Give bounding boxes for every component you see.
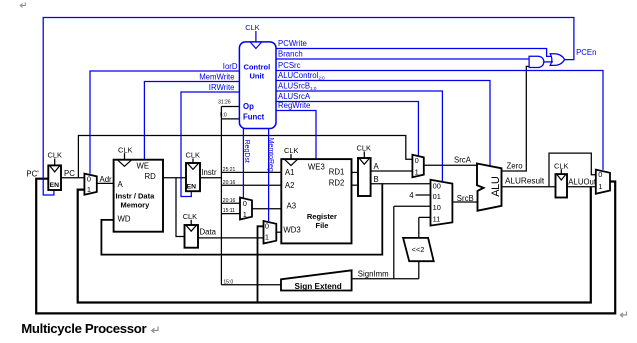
wire ALUControl to ALU [276, 81, 490, 167]
wire memory RD branch to Data register [176, 178, 185, 237]
wire Instr 25:21 tap to A1 [221, 171, 281, 173]
control unit [239, 42, 276, 129]
svg-text:B: B [374, 175, 379, 184]
wire RD1 to A register [352, 171, 359, 173]
svg-text:RegDst: RegDst [243, 140, 250, 163]
wire Instr register output to instruction bus [200, 177, 221, 179]
svg-text:CLK: CLK [357, 144, 371, 153]
svg-text:Op: Op [243, 102, 254, 111]
svg-text:CLK: CLK [118, 146, 132, 155]
svg-text:1: 1 [265, 232, 269, 241]
wire B register to memory WD loop [101, 184, 382, 255]
register PC [48, 165, 61, 190]
svg-text:CLK: CLK [48, 151, 62, 160]
block shift left 2 [403, 238, 434, 261]
svg-text:SrcA: SrcA [454, 155, 472, 164]
svg-text:25:21: 25:21 [223, 167, 236, 173]
svg-text:0: 0 [87, 175, 91, 184]
svg-text:RegWrite: RegWrite [278, 101, 310, 110]
svg-text:4: 4 [409, 191, 414, 200]
svg-text:CLK: CLK [554, 161, 568, 170]
wire memory RD to Instr register [163, 177, 186, 179]
svg-text:Adr: Adr [100, 175, 113, 184]
wire ALUOut riser to MemtoReg mux input 0 [258, 226, 264, 301]
wire Adr (IorD mux output to memory address) [97, 182, 114, 184]
svg-text:PCWrite: PCWrite [278, 39, 307, 48]
svg-text:CLK: CLK [284, 146, 298, 155]
svg-text:0: 0 [243, 199, 247, 208]
wire Data register output to MemtoReg mux input 1 [198, 237, 264, 239]
wire MemtoReg to MemtoReg mux select [268, 128, 270, 221]
svg-text:WD3: WD3 [283, 225, 300, 234]
register Instr [186, 163, 200, 191]
wire ALUSrcA to SrcA mux select [276, 102, 418, 157]
svg-text:Branch: Branch [278, 50, 303, 59]
svg-text:Zero: Zero [507, 162, 524, 171]
svg-text:15:11: 15:11 [223, 208, 235, 214]
wire PC-prime feedback loop (PCSrc mux output to PC register) [36, 179, 615, 314]
wire Zero output to AND gate [502, 66, 530, 171]
gate OR (PCWrite or branch-taken) [550, 54, 564, 66]
svg-text:0: 0 [265, 221, 269, 230]
wire Instr 5:0 tap to Funct [221, 118, 239, 120]
svg-text:Instr: Instr [201, 168, 217, 177]
svg-text:ALU: ALU [490, 176, 502, 197]
svg-text:A1: A1 [285, 168, 295, 177]
wire RegWrite to register file WE3 [276, 111, 316, 160]
svg-text:10: 10 [433, 203, 441, 212]
wire SrcB mux output to ALU [452, 201, 477, 203]
wire Instr 20:16 tap to RegDst mux input 0 [221, 202, 240, 204]
wire RegDst to RegDst mux select [242, 128, 244, 198]
wire MemWrite to memory WE [144, 82, 239, 160]
wire AND gate output to OR gate [544, 61, 553, 63]
wire MemtoReg mux output to WD3 [276, 231, 281, 233]
register ALUOut [556, 174, 568, 197]
wire instruction bus vertical [220, 107, 222, 285]
svg-text:<<2: <<2 [412, 245, 425, 254]
svg-text:PCEn: PCEn [576, 48, 596, 57]
svg-text:PC': PC' [26, 169, 39, 178]
wire Instr 15:11 tap to RegDst mux input 1 [221, 213, 240, 215]
svg-text:0: 0 [415, 156, 419, 165]
svg-text:00: 00 [433, 182, 441, 191]
svg-text:SrcB: SrcB [457, 194, 474, 203]
svg-text:15:0: 15:0 [223, 280, 233, 286]
svg-text:RD1: RD1 [329, 168, 345, 177]
svg-text:ALUOut: ALUOut [568, 178, 597, 187]
svg-text:ALUSrcB1:0: ALUSrcB1:0 [278, 82, 317, 92]
svg-text:A: A [374, 162, 380, 171]
svg-text:A3: A3 [287, 201, 297, 210]
wire ALUOut feedback loop (ALUOut to IorD mux input 1) [78, 187, 591, 303]
memory Instr/Data Memory [114, 160, 163, 232]
svg-text:SignImm: SignImm [358, 269, 389, 278]
wire Branch to AND gate [276, 58, 529, 60]
svg-text:Unit: Unit [250, 71, 265, 80]
svg-text:ALUSrcA: ALUSrcA [278, 92, 311, 101]
wire PCWrite to OR gate [276, 49, 551, 57]
svg-text:Register: Register [307, 212, 337, 221]
svg-text:31:26: 31:26 [218, 99, 231, 105]
wire SignImm from Sign Extend [352, 261, 419, 279]
paragraph mark top-left [20, 3, 25, 8]
svg-text:WE: WE [137, 161, 150, 170]
svg-text:Instr / Data: Instr / Data [116, 192, 156, 201]
gate AND (Branch and Zero) [529, 56, 544, 67]
wire Instr 15:0 tap to Sign Extend [221, 284, 281, 286]
register A/B [358, 158, 371, 196]
svg-text:A2: A2 [285, 181, 295, 190]
register file [281, 159, 351, 243]
svg-text:Funct: Funct [243, 112, 265, 121]
wire SignImm to SrcB mux input 10 [394, 206, 431, 278]
wire ALUResult to ALUOut register [502, 186, 556, 188]
svg-text:MemtoReg: MemtoReg [267, 138, 274, 172]
wire SrcA mux output to ALU [424, 164, 477, 166]
wire ALUOut register output to PCSrc mux input 1 [567, 186, 596, 188]
svg-text:1: 1 [415, 168, 419, 177]
wire B register output to SrcB mux input 00 [371, 183, 431, 185]
svg-text:01: 01 [433, 192, 441, 201]
svg-text:File: File [316, 221, 329, 230]
wire PC output to IorD mux input 0 [61, 177, 84, 179]
wire RD2 to B register [352, 184, 359, 186]
wire PCSrc to PCSrc mux select [276, 71, 603, 170]
svg-text:20:16: 20:16 [223, 180, 236, 186]
svg-text:0: 0 [598, 170, 602, 179]
svg-text:Data: Data [200, 228, 217, 237]
svg-text:1: 1 [598, 182, 602, 191]
svg-text:ALUResult: ALUResult [505, 177, 545, 186]
wire ALUSrcB to SrcB mux select [276, 91, 442, 182]
svg-text:WD: WD [118, 214, 131, 223]
svg-text:IorD: IorD [223, 62, 238, 71]
svg-text:CLK: CLK [183, 212, 197, 221]
wire constant 4 to SrcB mux input 01 [416, 194, 431, 196]
svg-text:1: 1 [243, 210, 247, 219]
paragraph mark after caption [152, 327, 158, 333]
wire ALUResult bypass to PCSrc mux input 0 [549, 153, 596, 187]
svg-text:CLK: CLK [186, 151, 200, 160]
svg-text:20:16: 20:16 [223, 198, 236, 204]
svg-text:Sign Extend: Sign Extend [295, 282, 342, 291]
svg-text:PCSrc: PCSrc [278, 61, 301, 70]
wire Instr 31:26 tap to Op [221, 106, 239, 108]
svg-text:EN: EN [50, 182, 60, 189]
svg-text:MemWrite: MemWrite [199, 73, 234, 82]
mux IorD [84, 174, 96, 195]
wire A register output to SrcA mux input 1 [371, 170, 413, 172]
block Sign Extend [281, 270, 352, 290]
svg-text:1: 1 [87, 185, 91, 194]
svg-text:Multicycle Processor: Multicycle Processor [21, 321, 146, 336]
svg-text:Memory: Memory [121, 200, 151, 209]
svg-text:Control: Control [244, 62, 271, 71]
svg-text:EN: EN [187, 183, 197, 190]
register Data [185, 225, 199, 248]
paragraph mark bottom-right [620, 312, 626, 318]
wire PCEn from OR gate to PC register enable [43, 18, 574, 196]
svg-text:11: 11 [433, 215, 441, 224]
svg-text:RD2: RD2 [329, 179, 345, 188]
svg-text:RD: RD [145, 172, 157, 181]
svg-text:CLK: CLK [245, 23, 259, 32]
mux MemtoReg [264, 221, 277, 244]
svg-text:PC: PC [64, 169, 75, 178]
mux RegDst [240, 198, 252, 220]
wire PC output to SrcA mux input 0 [78, 136, 412, 178]
wire RegDst mux output to A3 [252, 208, 281, 210]
mux SrcB [431, 180, 453, 226]
svg-text:A: A [118, 180, 124, 189]
wire IorD to IorD mux select [90, 71, 239, 174]
mux SrcA [412, 155, 423, 177]
svg-text:IRWrite: IRWrite [209, 83, 235, 92]
svg-text:5:0: 5:0 [220, 112, 227, 118]
wire IRWrite to Instr register enable [181, 92, 239, 197]
wire Instr 20:16 tap to A2 [221, 184, 281, 186]
wire shifted SignImm to SrcB mux input 11 [419, 217, 431, 238]
svg-text:ALUControl2:0: ALUControl2:0 [278, 71, 325, 81]
ALU U1 [477, 164, 502, 211]
svg-text:WE3: WE3 [308, 162, 325, 171]
mux PCSrc [596, 170, 610, 194]
